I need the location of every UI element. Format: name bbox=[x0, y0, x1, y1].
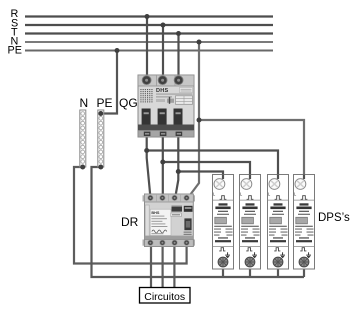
svg-text:DPS’s: DPS’s bbox=[318, 212, 350, 224]
wire T to QG bbox=[177, 34, 179, 81]
wire R to QG bbox=[146, 17, 148, 81]
N bus bar bbox=[80, 110, 86, 167]
wire tap QG3 to DPS1 bbox=[178, 172, 223, 180]
junction dot PE bbox=[115, 48, 120, 53]
junction dot QG1 tap bbox=[144, 148, 149, 153]
wire DPS2 ground stub bbox=[249, 267, 251, 277]
surge protector DPS1 bbox=[213, 175, 234, 270]
junction dot T bbox=[176, 31, 181, 36]
wire DPS3 ground stub bbox=[277, 267, 279, 277]
wire N vertical bbox=[189, 42, 200, 197]
wire DR4 N return to N bar bbox=[74, 167, 187, 264]
junction dot N tap bbox=[197, 118, 202, 123]
svg-text:DHS: DHS bbox=[156, 88, 169, 94]
RCD DR bbox=[143, 194, 196, 247]
wire QG3 to DR3 bbox=[176, 136, 179, 196]
node PE bar bottom bbox=[98, 165, 103, 170]
svg-text:Circuitos: Circuitos bbox=[144, 291, 185, 303]
wire QG2 to DR2 bbox=[162, 136, 164, 196]
junction dot QG2 tap bbox=[160, 160, 165, 165]
surge protector DPS4 bbox=[294, 175, 315, 270]
svg-text:DR: DR bbox=[121, 215, 139, 229]
wire tap QG1 to DPS3 bbox=[147, 151, 278, 180]
node N bar bottom bbox=[80, 165, 85, 170]
wire PE drop bbox=[101, 51, 118, 114]
wire DR2 to circuits bbox=[162, 246, 164, 288]
wire S to QG bbox=[162, 25, 164, 80]
wire DR1 to circuits bbox=[150, 246, 152, 288]
junction dot QG3 tap bbox=[176, 169, 181, 174]
svg-text:QG: QG bbox=[119, 96, 138, 110]
breaker QG bbox=[138, 75, 194, 137]
svg-text:PE: PE bbox=[8, 45, 22, 57]
bus PE bbox=[25, 50, 273, 52]
wire DPS4 ground stub bbox=[303, 267, 305, 277]
bus R bbox=[25, 15, 273, 17]
node PE bar top bbox=[98, 111, 103, 116]
wire N tap to DPS4 bbox=[199, 120, 304, 179]
PE bus bar bbox=[98, 110, 104, 167]
bus S bbox=[25, 24, 273, 26]
bus N bbox=[25, 41, 273, 43]
surge protector DPS3 bbox=[268, 175, 289, 270]
wire tap QG2 to DPS2 bbox=[163, 162, 250, 179]
svg-text:BHS: BHS bbox=[151, 211, 159, 215]
wire PE bar to DPS ground bus bbox=[92, 167, 305, 277]
surge protector DPS2 bbox=[240, 175, 261, 270]
svg-text:N: N bbox=[80, 96, 89, 110]
wire QG1 to DR1 bbox=[147, 136, 151, 196]
wire DR3 to circuits bbox=[173, 246, 175, 288]
bus T bbox=[25, 32, 273, 34]
circuits box bbox=[140, 288, 191, 304]
wire DPS1 ground stub bbox=[222, 267, 224, 277]
svg-text:PE: PE bbox=[97, 96, 113, 110]
junction dot R bbox=[145, 14, 150, 19]
junction dot S bbox=[161, 23, 166, 28]
junction dot N bbox=[197, 40, 202, 45]
